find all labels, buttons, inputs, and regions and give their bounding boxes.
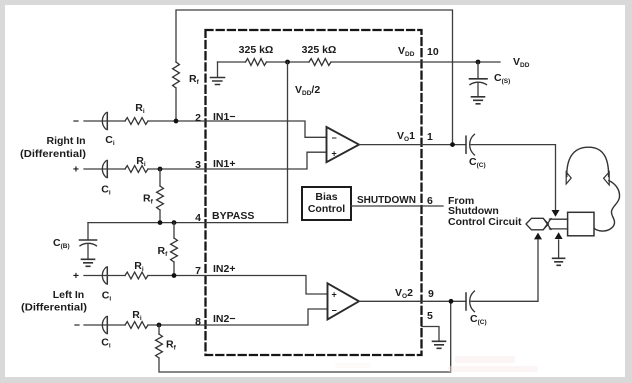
wire VDD/2 vertical to BYPASS — [287, 62, 289, 223]
wire Rf bottom to IN1- node — [175, 88, 177, 121]
svg-text:6: 6 — [427, 195, 433, 207]
svg-text:8: 8 — [195, 316, 201, 328]
resistor Rf (IN1+ to BYPASS, vertical at x=160) — [159, 169, 161, 186]
ground (VDD divider left) — [217, 62, 219, 77]
svg-text:+: + — [73, 164, 79, 176]
svg-text:3: 3 — [195, 159, 201, 171]
wire IN1- input row — [84, 120, 107, 122]
wire VO1 to jack sleeve — [471, 145, 556, 210]
resistor Rf (IN2- feedback, vertical at x=159) — [158, 325, 160, 334]
wire IN1+ input row — [84, 168, 107, 170]
svg-text:IN1−: IN1− — [213, 111, 235, 123]
op-amp U1 — [327, 127, 360, 162]
capacitor Ci (IN2+) — [102, 267, 106, 283]
ground (pin 5) — [433, 341, 446, 348]
resistor Ri (IN1+) — [125, 166, 148, 173]
jack groove cross — [544, 219, 552, 230]
wire: ch1 feedback top loop from Rf to VO1 node — [176, 10, 453, 145]
resistor Rf (BYPASS to IN2+, vertical at x=174) — [173, 223, 175, 238]
capacitor C(S) — [477, 62, 479, 78]
resistor 325k (left) — [246, 59, 267, 66]
node VDD/2 junction dot — [285, 60, 290, 65]
capacitor Ci (IN1+) — [102, 161, 106, 177]
headphone cable — [595, 181, 620, 232]
svg-text:Right In: Right In — [47, 135, 86, 147]
wire IN2+ to op-amp — [148, 276, 328, 295]
node VO2 junction dot — [449, 299, 454, 304]
wire SHUTDOWN — [351, 205, 443, 207]
svg-text:−: − — [332, 306, 337, 316]
svg-text:2: 2 — [195, 112, 201, 124]
svg-text:IN1+: IN1+ — [213, 158, 235, 170]
wire IN1+ to op-amp — [148, 152, 327, 169]
resistor 325k (right) — [309, 59, 331, 66]
wire BYPASS row — [88, 222, 288, 224]
node VO1 junction dot — [450, 142, 455, 147]
wire VO2 output — [359, 300, 466, 302]
resistor Ri (IN2+) — [125, 272, 148, 279]
wire VO1 output — [359, 144, 466, 146]
svg-text:(Differential): (Differential) — [20, 148, 86, 160]
svg-text:325 kΩ: 325 kΩ — [302, 44, 337, 56]
node IN1- junction dot — [174, 119, 179, 124]
svg-text:Left In: Left In — [53, 289, 84, 301]
node IN2- junction dot — [157, 323, 162, 328]
headphone left ear — [566, 172, 571, 184]
svg-text:9: 9 — [428, 288, 434, 300]
svg-text:SHUTDOWN: SHUTDOWN — [357, 194, 416, 206]
op-amp U2 — [328, 283, 360, 319]
headphone icon headband — [567, 147, 609, 176]
svg-text:10: 10 — [427, 46, 439, 58]
svg-text:+: + — [332, 290, 337, 300]
wire VDD to pin 10 and out to VDD terminal — [331, 61, 500, 63]
jack barrel — [550, 219, 568, 229]
jack body — [568, 212, 594, 236]
node BYPASS dot 1 — [158, 220, 163, 225]
svg-text:1: 1 — [427, 131, 433, 143]
bias control block — [302, 187, 351, 220]
arrowhead up to jack tip — [534, 233, 542, 240]
headphone jack: tip — [526, 218, 549, 230]
wire VDD row — [218, 61, 246, 63]
svg-text:−: − — [332, 133, 337, 143]
capacitor C(B) — [87, 223, 89, 240]
svg-text:325 kΩ: 325 kΩ — [239, 44, 274, 56]
resistor Ri (IN2-) — [125, 322, 148, 329]
wire — [267, 61, 310, 63]
svg-text:BYPASS: BYPASS — [212, 210, 254, 222]
svg-text:Control Circuit: Control Circuit — [448, 216, 522, 228]
headphone right ear — [604, 172, 610, 185]
wire IN2- input row — [84, 324, 107, 326]
faint watermark — [335, 356, 538, 372]
svg-text:+: + — [332, 149, 337, 159]
svg-text:+: + — [73, 270, 79, 282]
svg-text:Bias: Bias — [315, 191, 337, 203]
ground (C(B)) — [82, 259, 95, 266]
node C(S) junction dot — [476, 60, 481, 65]
wire IN2+ input row — [84, 275, 107, 277]
svg-text:IN2−: IN2− — [213, 313, 235, 325]
wire IN1- to op-amp — [148, 121, 327, 137]
capacitor C(C) ch2 — [465, 293, 467, 310]
capacitor C(C) ch1 — [465, 136, 467, 153]
node BYPASS dot 2 — [172, 220, 177, 225]
wire pin 5 to ground — [422, 327, 440, 341]
resistor Ri (IN1-) — [125, 118, 148, 125]
node IN1+ junction dot — [158, 167, 163, 172]
ground (C(S)) — [472, 97, 485, 104]
svg-text:5: 5 — [427, 310, 433, 322]
ground (jack) — [553, 258, 565, 265]
ground arrow to jack ring — [558, 240, 560, 258]
IC dashed boundary box — [206, 30, 422, 355]
svg-text:Control: Control — [308, 203, 345, 215]
svg-text:IN2+: IN2+ — [213, 263, 235, 275]
node IN2+ junction dot — [172, 273, 177, 278]
wire ch2 feedback bottom loop to VO2 node — [159, 301, 451, 372]
svg-text:7: 7 — [195, 265, 201, 277]
wire IN2- to op-amp — [148, 309, 328, 325]
wire VO2 to jack tip — [471, 240, 538, 301]
resistor Rf (ch1 feedback, vertical at x=176) — [173, 62, 180, 88]
arrowhead down to jack — [552, 210, 560, 217]
svg-text:4: 4 — [195, 212, 201, 224]
svg-text:(Differential): (Differential) — [21, 302, 87, 314]
capacitor Ci (IN2-) — [102, 317, 106, 333]
capacitor Ci (IN1-) — [102, 113, 106, 129]
svg-text:−: − — [73, 116, 79, 128]
svg-text:−: − — [74, 320, 80, 332]
